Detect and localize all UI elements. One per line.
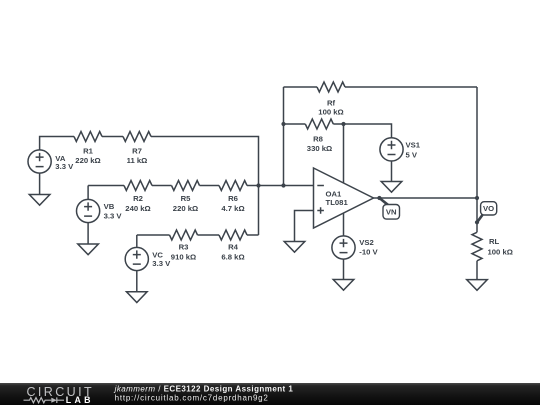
op-amp minus input marker (317, 185, 324, 187)
svg-text:5 V: 5 V (406, 151, 418, 160)
wire op-amp plus input to ground (295, 211, 314, 242)
wire VB top lead (87, 186, 89, 200)
wire R8 to VS1 (333, 124, 391, 138)
op-amp U1 OA1 triangle (314, 168, 374, 228)
svg-text:240 kΩ: 240 kΩ (125, 204, 150, 213)
wire feedback vertical node to rows (283, 87, 285, 186)
svg-text:220 kΩ: 220 kΩ (75, 156, 100, 165)
junction feedback R8 (281, 122, 285, 126)
ground below VS2 (333, 280, 354, 291)
wire op-amp V- power pin (343, 213, 345, 236)
ground below RL (467, 280, 488, 291)
resistor R3 (170, 230, 198, 240)
wire op-amp V+ power pin (343, 124, 345, 183)
wire VB bottom to ground (87, 223, 89, 244)
ground below VS1 (381, 182, 402, 193)
svg-text:VS1: VS1 (406, 141, 421, 150)
wire VA top lead to R1 (40, 137, 74, 150)
svg-text:4.7 kΩ: 4.7 kΩ (221, 204, 244, 213)
svg-text:R3: R3 (179, 242, 189, 251)
node VO flag (477, 202, 497, 223)
wire R8 left lead (284, 123, 306, 125)
svg-text:R4: R4 (228, 242, 239, 251)
svg-text:TL081: TL081 (326, 198, 349, 207)
svg-text:VO: VO (483, 204, 494, 213)
resistor R2 (124, 181, 152, 191)
wire VS2 bottom to ground (343, 259, 345, 279)
wire Rf to right bus (345, 86, 477, 88)
svg-text:-10 V: -10 V (359, 247, 378, 256)
voltage source VS1 (380, 138, 403, 161)
CircuitLab logo resistor-diode symbol (24, 397, 65, 403)
junction VO anchor (475, 220, 479, 224)
svg-text:R7: R7 (132, 147, 142, 156)
svg-text:11 kΩ: 11 kΩ (127, 156, 148, 165)
resistor R4 (219, 230, 247, 240)
svg-text:910 kΩ: 910 kΩ (171, 252, 196, 261)
svg-text:LAB: LAB (66, 395, 94, 405)
junction R8 VS1 power (341, 122, 345, 126)
wire VC to R3 (137, 234, 170, 236)
wire R1 to R7 (102, 136, 123, 138)
resistor Rf (317, 82, 345, 92)
ground at op-amp plus input (284, 242, 305, 253)
svg-text:Rf: Rf (327, 99, 336, 108)
wire right bus to RL (476, 198, 478, 232)
wire VS1 bottom to ground (391, 161, 393, 182)
svg-text:220 kΩ: 220 kΩ (173, 204, 198, 213)
junction bus row2 (256, 183, 260, 187)
svg-text:3.3 V: 3.3 V (104, 212, 123, 221)
svg-text:330 kΩ: 330 kΩ (307, 144, 332, 153)
svg-text:R1: R1 (83, 147, 94, 156)
svg-text:3.3 V: 3.3 V (152, 259, 171, 268)
op-amp plus input marker (317, 207, 324, 214)
wire R2 to R5 (152, 185, 172, 187)
ground below VB (78, 244, 99, 255)
svg-text:R8: R8 (313, 135, 324, 144)
wire R5 to R6 (200, 185, 220, 187)
svg-text:RL: RL (489, 237, 500, 246)
wire R7 to bus, bus down to row3 (151, 137, 259, 236)
junction feedback row2 (281, 183, 285, 187)
wire RL bottom to ground (476, 261, 478, 280)
wire VB to R2 (88, 185, 124, 187)
ground below VC (127, 292, 148, 303)
wire op-amp output to right bus (374, 197, 478, 199)
junction output right bus (475, 196, 479, 200)
resistor R6 (219, 181, 247, 191)
wire R4 to bus (247, 234, 259, 236)
resistor RL (472, 232, 482, 260)
svg-text:6.8 kΩ: 6.8 kΩ (221, 252, 244, 261)
resistor R8 (305, 119, 333, 129)
wire VC top lead (136, 235, 138, 247)
resistor R1 (74, 132, 102, 142)
wire VA bottom to ground (39, 173, 41, 194)
voltage source VB (77, 199, 100, 222)
voltage source VA (28, 150, 51, 173)
footer bar (0, 383, 540, 405)
node VN flag (379, 198, 399, 219)
svg-text:VB: VB (104, 202, 115, 211)
svg-text:VS2: VS2 (359, 238, 374, 247)
svg-text:100 kΩ: 100 kΩ (318, 108, 343, 117)
wire VC bottom to ground (136, 271, 138, 292)
svg-text:100 kΩ: 100 kΩ (488, 248, 513, 257)
wire R3 to R4 (198, 234, 220, 236)
ground below VA (29, 195, 50, 206)
svg-text:http://circuitlab.com/c7deprdh: http://circuitlab.com/c7deprdhan9g2 (115, 393, 269, 402)
wire right bus down to output row (476, 87, 478, 198)
svg-text:R5: R5 (181, 194, 192, 203)
wire R6 to op-amp inverting input (247, 185, 314, 187)
svg-text:R6: R6 (228, 194, 238, 203)
wire Rf left lead (284, 86, 318, 88)
resistor R7 (123, 132, 151, 142)
junction op-amp output node VN (377, 196, 381, 200)
svg-text:3.3 V: 3.3 V (55, 162, 74, 171)
voltage source VS2 (332, 236, 355, 259)
voltage source VC (125, 247, 148, 270)
resistor R5 (172, 181, 200, 191)
svg-text:VN: VN (386, 208, 397, 217)
svg-text:R2: R2 (133, 194, 143, 203)
svg-text:jkammerm / ECE3122 Design Assi: jkammerm / ECE3122 Design Assignment 1 (114, 385, 294, 394)
